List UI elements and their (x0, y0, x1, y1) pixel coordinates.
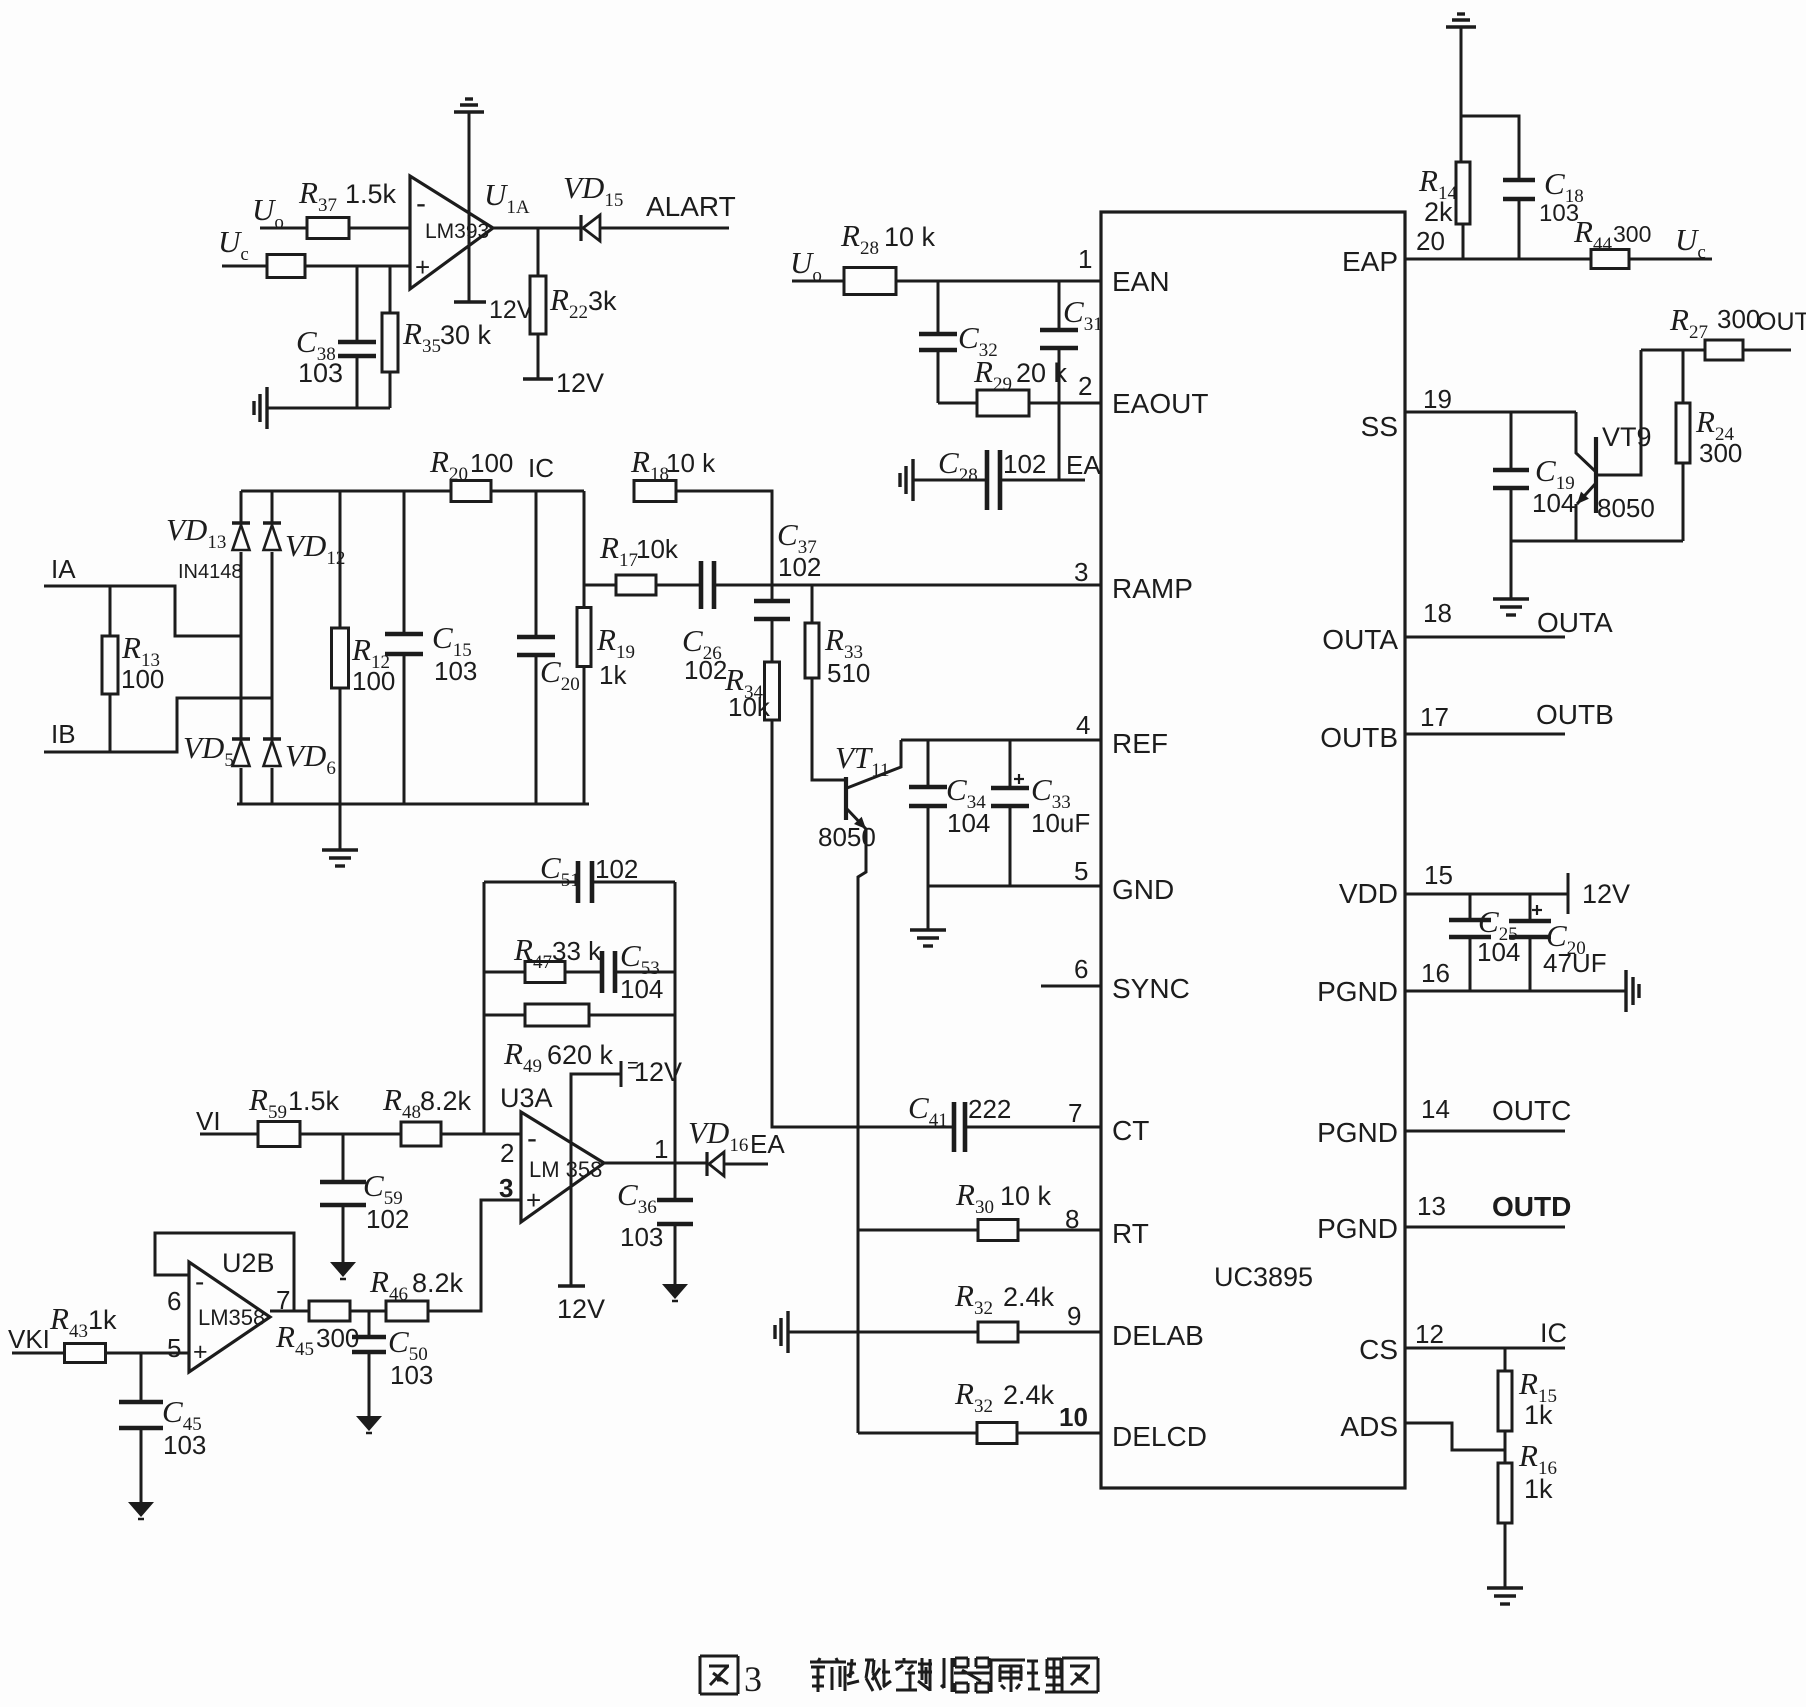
wire C59 branch (342, 1134, 345, 1182)
svg-text:VKI: VKI (8, 1324, 50, 1354)
svg-text:300: 300 (1717, 304, 1760, 334)
wire RT row from bus (858, 1229, 979, 1232)
resistor R37 1.5k (307, 218, 349, 239)
resistor R30 10k (978, 1220, 1018, 1241)
wire R48 to U3A minus (441, 1133, 521, 1136)
svg-text:1k: 1k (88, 1305, 117, 1335)
ground (bridge bottom bus) (322, 848, 358, 851)
wire to U1A plus input (305, 265, 410, 268)
svg-text:102: 102 (366, 1204, 409, 1234)
wire to C18 top (1461, 116, 1519, 180)
diode VD5 (232, 737, 250, 741)
IC U? UC3895 body (1101, 212, 1405, 1488)
capacitor C45 103 (119, 1400, 163, 1405)
wire R24 bottom (1682, 463, 1685, 541)
wire REF pin 4 (901, 739, 1101, 742)
capacitor C18 103 (1503, 178, 1535, 183)
wire R34 bottom to bus (772, 720, 858, 1127)
wire C26 to RAMP junction (714, 584, 772, 587)
capacitor C51 102 (576, 861, 581, 903)
svg-text:17: 17 (1420, 702, 1449, 732)
resistor R46 8.2k (386, 1301, 428, 1321)
resistor R19 1k (577, 608, 591, 667)
ground (top right) (1446, 25, 1476, 28)
wire SS corner to VT9 base (1576, 412, 1596, 472)
svg-text:102: 102 (595, 854, 638, 884)
ground (C19) (1493, 597, 1529, 600)
wire R15 top lead (1504, 1348, 1507, 1371)
wire top bus corner to VD13 (240, 491, 243, 522)
svg-text:102: 102 (778, 552, 821, 582)
resistor (Uc series, unlabeled) (267, 255, 305, 278)
wire C20 bottom (1529, 937, 1532, 991)
capacitor C26 102 (699, 561, 704, 609)
svg-text:1k: 1k (599, 660, 627, 690)
wire R13 bottom (109, 694, 112, 752)
wire ground stem (bottom bus) (339, 804, 342, 850)
wire R19/R17 junction column (583, 491, 586, 608)
U1A V- supply bar 12V (454, 300, 486, 303)
svg-text:9: 9 (1067, 1301, 1081, 1331)
wire DELCD row from bus (858, 1432, 977, 1435)
wire VT11 emitter to bus (858, 829, 866, 1433)
wire C33 branch (1009, 740, 1012, 788)
svg-text:3: 3 (1074, 557, 1088, 587)
wire R35 to ground bus (389, 372, 392, 408)
VT11 emitter (847, 809, 866, 829)
ground (C28) (911, 459, 914, 501)
svg-text:33 k: 33 k (552, 936, 602, 966)
wire DELAB row (788, 1331, 978, 1334)
wire R43 to U2B plus (106, 1352, 189, 1355)
svg-text:5: 5 (167, 1333, 181, 1363)
resistor R17 10k (616, 575, 656, 595)
svg-text:PGND: PGND (1317, 1117, 1398, 1148)
wire C25 bottom (1469, 937, 1472, 991)
resistor R16 1k (1498, 1463, 1512, 1523)
svg-text:1: 1 (654, 1134, 668, 1164)
svg-text:100: 100 (352, 666, 395, 696)
wire R12 bottom (339, 688, 342, 804)
wire R35 branch (389, 266, 392, 313)
wire SYNC stub pin 6 (1041, 985, 1101, 988)
svg-text:RT: RT (1112, 1218, 1149, 1249)
svg-text:ALART: ALART (646, 191, 736, 222)
op-amp U1A LM393 (410, 176, 493, 289)
svg-text:VT9: VT9 (1602, 422, 1652, 452)
svg-text:VDD: VDD (1339, 878, 1398, 909)
VT9 collector to R27 row (1597, 350, 1641, 475)
capacitor C25 104 (1449, 918, 1491, 923)
svg-text:103: 103 (620, 1222, 663, 1252)
svg-text:6: 6 (1074, 954, 1088, 984)
wire R19 bottom (583, 667, 586, 804)
ground (C50) (356, 1416, 382, 1431)
svg-text:IC: IC (528, 453, 554, 483)
ground (DELAB row) (786, 1311, 789, 1353)
wire C31 down to EA row (1058, 348, 1061, 480)
wire C53 row right (615, 971, 675, 974)
svg-text:PGND: PGND (1317, 976, 1398, 1007)
svg-text:104: 104 (947, 808, 990, 838)
resistor R27 300 (1705, 340, 1743, 360)
svg-text:1k: 1k (1524, 1400, 1553, 1430)
wire OUTA pin 18 row (1405, 636, 1565, 639)
wire R59 to R48 (300, 1133, 401, 1136)
svg-text:103: 103 (434, 656, 477, 686)
svg-text:LM358: LM358 (198, 1305, 265, 1330)
svg-text:CT: CT (1112, 1115, 1149, 1146)
wire R32 to pin 10 (1017, 1432, 1101, 1435)
wire VD12 anode to VD6 cathode (271, 552, 274, 739)
wire R49 row right (590, 1014, 675, 1017)
caption 图3 前级控制器原理图 (700, 1655, 738, 1658)
svg-text:510: 510 (827, 658, 870, 688)
resistor R13 100 (102, 636, 118, 694)
diode VD12 (271, 491, 274, 522)
wire ground bus (C38/R35) (267, 407, 390, 410)
VT9 emitter (1577, 483, 1596, 504)
svg-text:DELAB: DELAB (1112, 1320, 1204, 1351)
svg-text:10 k: 10 k (1000, 1181, 1052, 1211)
svg-text:OUTA: OUTA (1537, 607, 1613, 638)
diode VD15 (579, 215, 582, 241)
wire C38 branch (356, 266, 359, 342)
svg-text:IN4148: IN4148 (178, 561, 243, 583)
resistor R15 1k (1498, 1371, 1512, 1431)
svg-text:IC: IC (1540, 1318, 1567, 1348)
resistor R20 100 (451, 481, 491, 502)
svg-text:1.5k: 1.5k (345, 179, 397, 209)
resistor R35 30k (382, 313, 398, 372)
wire C41 to pin 7 (965, 1126, 1101, 1129)
wire C45 to ground (140, 1428, 143, 1502)
svg-text:6: 6 (167, 1286, 181, 1316)
wire C36 branch (674, 1163, 677, 1200)
svg-text:OUT: OUT (1757, 308, 1806, 336)
svg-text:-: - (527, 1122, 537, 1155)
svg-text:2.4k: 2.4k (1003, 1282, 1055, 1312)
svg-text:8.2k: 8.2k (420, 1086, 472, 1116)
svg-text:2: 2 (1078, 371, 1092, 401)
capacitor C59 102 (320, 1180, 366, 1185)
wire R14 to EAP row (1462, 224, 1465, 259)
svg-text:18: 18 (1423, 598, 1452, 628)
wire C51 row left (484, 881, 578, 884)
wire U1A output (493, 227, 581, 230)
svg-text:12V: 12V (557, 1294, 605, 1324)
ground (C38/R35) (265, 387, 268, 429)
wire C36 to ground (674, 1224, 677, 1284)
svg-text:SYNC: SYNC (1112, 973, 1190, 1004)
resistor R49 620k (525, 1004, 589, 1026)
wire C20 bottom (535, 655, 538, 804)
svg-text:103: 103 (390, 1360, 433, 1390)
svg-text:-: - (195, 1266, 204, 1297)
supply 12V (U3A V+) (620, 1061, 623, 1087)
diode VD6 (263, 737, 281, 741)
wire feedback left vertical (483, 882, 486, 1134)
svg-text:12V: 12V (489, 296, 534, 324)
wire R15 to ADS junction (1504, 1431, 1507, 1463)
wire EA net stub (724, 1163, 768, 1166)
wire OUTB pin 17 row (1405, 733, 1565, 736)
svg-text:104: 104 (620, 974, 663, 1004)
wire Uo input (260, 227, 307, 230)
svg-text:12V: 12V (556, 368, 604, 398)
svg-text:47UF: 47UF (1543, 948, 1607, 978)
svg-text:19: 19 (1423, 384, 1452, 414)
svg-text:UC3895: UC3895 (1214, 1262, 1313, 1292)
svg-text:OUTC: OUTC (1492, 1095, 1571, 1126)
svg-text:2k: 2k (1424, 197, 1453, 227)
svg-text:PGND: PGND (1317, 1213, 1398, 1244)
svg-text:VI: VI (196, 1106, 221, 1136)
svg-text:+: + (193, 1338, 208, 1366)
wire VI input (200, 1133, 258, 1136)
resistor R32 2.4k (DELCD) (977, 1423, 1017, 1444)
capacitor C37 102 (754, 599, 790, 604)
wire C34 to GND wire and ground (927, 806, 930, 930)
svg-text:ADS: ADS (1340, 1411, 1398, 1442)
wire OUT output (1743, 349, 1791, 352)
supply bar 12V (U3A V-) (558, 1284, 585, 1287)
wire R24 top lead (1682, 350, 1685, 403)
svg-text:CS: CS (1359, 1334, 1398, 1365)
transistor VT9 8050 (1594, 437, 1598, 513)
svg-text:10k: 10k (728, 692, 771, 722)
wire EAP pin 20 row (1405, 258, 1591, 261)
ground (C59) (330, 1262, 356, 1277)
wire C37 to R34 (771, 619, 774, 662)
wire C20 branch (VDD) (1529, 894, 1532, 921)
svg-text:SS: SS (1361, 411, 1398, 442)
wire C34 branch (927, 740, 930, 787)
svg-text:OUTD: OUTD (1492, 1191, 1571, 1222)
svg-text:OUTB: OUTB (1320, 722, 1398, 753)
wire C20 top lead (535, 491, 538, 637)
svg-text:103: 103 (298, 358, 343, 388)
wire U3A output (604, 1162, 706, 1165)
svg-text:13: 13 (1417, 1191, 1446, 1221)
svg-text:2: 2 (500, 1138, 514, 1168)
resistor R59 1.5k (258, 1122, 300, 1147)
svg-text:IA: IA (51, 554, 76, 584)
svg-text:10 k: 10 k (666, 448, 716, 478)
resistor R34 10k (765, 662, 780, 720)
svg-text:-: - (416, 187, 426, 220)
ground (PGND) (1624, 970, 1627, 1012)
svg-text:1.5k: 1.5k (288, 1086, 340, 1116)
svg-text:EA: EA (1066, 450, 1101, 480)
wire CT row from bus (858, 1126, 954, 1129)
svg-text:EAP: EAP (1342, 246, 1398, 277)
diode VD13 IN4148 (232, 521, 250, 525)
resistor R13 100 branch top (109, 586, 112, 636)
resistor R43 1k (65, 1344, 106, 1363)
wire U1A V+ / V- vertical (468, 112, 471, 302)
wire R16 to ground (1504, 1523, 1507, 1588)
resistor R45 300 (309, 1301, 350, 1321)
wire ALART output (600, 227, 729, 230)
svg-text:2.4k: 2.4k (1003, 1380, 1055, 1410)
wire R37 to U1A minus input (349, 227, 410, 230)
svg-text:1: 1 (1078, 244, 1092, 274)
svg-text:5: 5 (1074, 856, 1088, 886)
VT11 collector to REF (847, 740, 901, 788)
resistor R48 8.2k (401, 1122, 441, 1146)
capacitor C50 103 (352, 1335, 386, 1340)
svg-text:14: 14 (1421, 1094, 1450, 1124)
wire U2B feedback (155, 1233, 294, 1311)
capacitor C38 103 (338, 340, 376, 345)
svg-text:12V: 12V (1582, 879, 1630, 909)
svg-text:+: + (526, 1185, 541, 1215)
svg-text:104: 104 (1532, 488, 1575, 518)
wire PGND pin 16 row (1405, 990, 1626, 993)
wire OUTD pin 13 row (1405, 1226, 1565, 1229)
wire R27 row (1641, 349, 1705, 352)
svg-text:10uF: 10uF (1031, 808, 1090, 838)
wire R49 row left (484, 1014, 525, 1017)
wire SS pin 19 row (1405, 411, 1576, 414)
svg-text:U3A: U3A (500, 1083, 553, 1113)
svg-text:EA: EA (750, 1129, 785, 1159)
svg-text:8050: 8050 (1597, 493, 1655, 523)
wire R22 to -12V bar (537, 334, 540, 379)
capacitor C34 104 (909, 785, 947, 790)
resistor R12 100 top lead (339, 491, 342, 628)
capacitor C31 (1040, 328, 1078, 333)
wire Uc input (222, 265, 267, 268)
svg-text:30 k: 30 k (440, 320, 492, 350)
transistor VT11 8050 (844, 777, 848, 820)
wire top ground to R14/C18 (1460, 27, 1463, 162)
wire VD6 to bottom bus (271, 768, 274, 804)
svg-text:LM393: LM393 (425, 220, 489, 243)
capacitor C19 104 (1493, 468, 1529, 473)
svg-text:RAMP: RAMP (1112, 573, 1193, 604)
resistor R14 2k (1456, 162, 1470, 224)
svg-text:+: + (415, 252, 430, 282)
wire top bus (bridge +) (241, 490, 584, 493)
wire RAMP to pin 3 (772, 584, 1101, 587)
svg-text:16: 16 (1421, 958, 1450, 988)
resistor R29 20k (977, 390, 1029, 416)
svg-text:222: 222 (968, 1094, 1011, 1124)
wire R28 to pin 1 EAN (896, 280, 1101, 283)
wire EA stub (1000, 479, 1085, 482)
wire R47 to C53 (565, 971, 602, 974)
svg-text:OUTB: OUTB (1536, 699, 1614, 730)
svg-text:300: 300 (1699, 438, 1742, 468)
supply 12V tick (VDD) (1567, 873, 1570, 914)
svg-text:GND: GND (1112, 874, 1174, 905)
svg-text:20: 20 (1416, 226, 1445, 256)
resistor R18 10k (634, 481, 676, 502)
wire C51 row right (592, 881, 675, 884)
capacitor C53 104 (600, 951, 605, 993)
svg-text:REF: REF (1112, 728, 1168, 759)
wire C59 to ground (342, 1205, 345, 1262)
wire IB to bridge node B (44, 698, 272, 752)
wire C32 branch (937, 281, 940, 334)
capacitor C20 103 (bridge) (517, 635, 555, 640)
svg-text:10k: 10k (636, 534, 679, 564)
svg-text:10 k: 10 k (884, 222, 936, 252)
resistor R32 2.4k (DELAB) (978, 1322, 1018, 1342)
wire C15 bottom (403, 654, 406, 804)
wire C32 to R29 row (937, 350, 940, 403)
wire VDD pin 15 row (1405, 893, 1568, 896)
wire R30 to pin 8 (1018, 1229, 1101, 1232)
wire bottom bus (bridge -) (237, 803, 589, 806)
wire C33 bottom (1009, 806, 1012, 886)
wire C50 to ground (368, 1352, 371, 1416)
wire C38 to ground bus (356, 356, 359, 408)
wire C50 branch (368, 1311, 371, 1337)
svg-text:12V: 12V (634, 1057, 682, 1087)
svg-text:104: 104 (1477, 937, 1520, 967)
wire R18 corner down to C37 (676, 491, 772, 601)
capacitor C33 10uF (polarized) (991, 786, 1029, 791)
wire IA to bridge node A (44, 586, 240, 636)
wire feedback right vertical (674, 882, 677, 1163)
capacitor C32 (919, 332, 957, 337)
resistor R12 100 (332, 628, 349, 688)
svg-text:102: 102 (1003, 449, 1046, 479)
wire C19 branch (1510, 412, 1513, 470)
ground (R16) (1487, 1586, 1523, 1589)
svg-text:LM 358: LM 358 (529, 1157, 602, 1182)
svg-text:620 k: 620 k (547, 1040, 614, 1070)
svg-text:U2B: U2B (222, 1248, 275, 1278)
wire C19 to bottom row and ground (1510, 488, 1513, 599)
capacitor C41 222 (952, 1102, 957, 1152)
resistor R44 300 (1591, 250, 1629, 269)
wire VKI input (12, 1352, 65, 1355)
wire C45 branch (140, 1353, 143, 1402)
wire R32 to pin 9 (1018, 1331, 1101, 1334)
svg-text:7: 7 (1068, 1098, 1082, 1128)
supply bar 12V (below R22) (523, 377, 553, 380)
svg-text:300: 300 (1613, 221, 1651, 247)
ground (C36) (662, 1284, 688, 1299)
wire C15 top lead (403, 491, 406, 634)
wire VD13 anode to VD5 cathode (240, 552, 243, 739)
resistor R47 33k (525, 962, 565, 983)
wire GND pin 5 (928, 885, 1101, 888)
wire R33 branch (811, 585, 814, 623)
svg-text:OUTA: OUTA (1322, 624, 1398, 655)
wire OUTC pin 14 row (1405, 1130, 1565, 1133)
wire R44 to Uc (1629, 258, 1712, 261)
capacitor C28 102 (985, 450, 990, 510)
wire R47 row left (484, 971, 525, 974)
resistor R28 10k (844, 268, 896, 295)
wire R33 to VT11 base (812, 678, 845, 780)
svg-text:8.2k: 8.2k (412, 1268, 464, 1298)
wire R17 to C26 (656, 584, 701, 587)
svg-text:EAN: EAN (1112, 266, 1170, 297)
wire R17 from IC node (584, 584, 617, 587)
capacitor C20 47UF (polarized) (1509, 919, 1551, 924)
svg-text:100: 100 (121, 664, 164, 694)
wire U2B output (270, 1310, 309, 1313)
wire R22 branch (537, 228, 540, 276)
svg-text:15: 15 (1424, 860, 1453, 890)
wire C31 branch (1058, 281, 1061, 330)
